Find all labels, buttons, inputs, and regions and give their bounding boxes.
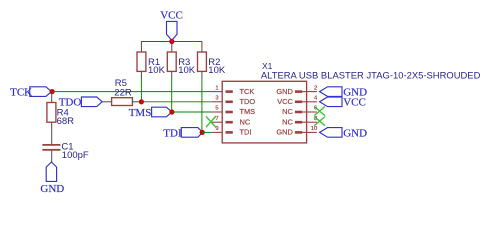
svg-text:GND: GND [40, 183, 64, 195]
pin 5 TMS [212, 106, 255, 117]
pin 8 NC [282, 116, 317, 127]
svg-text:2: 2 [314, 85, 317, 91]
wire TDO to R5 [102, 101, 112, 103]
svg-text:1: 1 [215, 85, 218, 91]
svg-text:TMS: TMS [240, 107, 256, 116]
pin 2 GND [276, 85, 317, 96]
supply symbol VCC [160, 9, 183, 40]
net label VCC pin4 [320, 97, 366, 109]
no-connect cross pin 8 [314, 117, 325, 126]
svg-text:TMS: TMS [129, 107, 152, 119]
svg-text:GND: GND [276, 87, 292, 96]
wire TCK to R4 [51, 92, 53, 103]
svg-text:GND: GND [343, 127, 367, 139]
no-connect cross pin 6 [314, 107, 325, 116]
wire R3 bottom stub [171, 71, 173, 78]
ground symbol GND [40, 162, 64, 195]
capacitor C1 top pin stub [51, 143, 53, 145]
resistor R3 10K [167, 52, 195, 76]
wire TDI net [202, 131, 212, 133]
svg-text:VCC: VCC [160, 9, 183, 21]
net label TDO [59, 97, 102, 109]
junction dot TDI/R2 [200, 130, 205, 135]
wire TMS net [172, 111, 212, 113]
wire C1 to GND [51, 152, 53, 163]
wire rail to R3 top [171, 42, 173, 53]
pin 6 NC [282, 106, 317, 117]
wire TDO net [141, 101, 212, 103]
wire rail to R2 top [201, 41, 203, 52]
pin 1 TCK [212, 85, 254, 96]
svg-text:22R: 22R [114, 87, 132, 98]
net label GND pin10 [320, 127, 367, 139]
resistor R2 10K [198, 52, 226, 76]
svg-text:3: 3 [215, 96, 218, 102]
resistor R5 22R [112, 78, 133, 106]
svg-text:TCK: TCK [240, 87, 255, 96]
pin 9 TDI [212, 126, 252, 137]
no-connect cross pin 7 [206, 116, 216, 127]
wire R1 bottom stub [140, 71, 142, 78]
svg-text:5: 5 [215, 106, 218, 112]
net label TCK [10, 87, 52, 99]
pin 3 TDO [212, 96, 255, 107]
capacitor C1 100pF [42, 141, 89, 161]
junction dot VCC rail [169, 39, 174, 44]
svg-text:NC: NC [240, 117, 251, 126]
svg-text:TDI: TDI [240, 128, 252, 137]
junction dot TDO/R1 [139, 99, 144, 104]
svg-text:9: 9 [215, 126, 218, 132]
wire R1 to TDO net [140, 78, 142, 102]
net label TDI [163, 127, 202, 139]
wire R2 bottom stub [201, 71, 203, 78]
svg-text:10: 10 [311, 126, 317, 132]
svg-text:GND: GND [276, 128, 292, 137]
wire R4 to C1 [51, 122, 53, 143]
junction dot TCK [50, 89, 55, 94]
svg-text:TCK: TCK [10, 87, 32, 99]
svg-text:TDI: TDI [163, 127, 182, 139]
svg-text:7: 7 [215, 116, 218, 122]
wire VCC rail [141, 41, 202, 43]
svg-text:VCC: VCC [343, 97, 366, 109]
svg-text:10K: 10K [178, 65, 196, 76]
pin 7 NC [212, 116, 251, 127]
resistor R4 68R [47, 103, 74, 127]
svg-text:X1: X1 [262, 61, 273, 71]
svg-text:ALTERA USB BLASTER JTAG-10-2X5: ALTERA USB BLASTER JTAG-10-2X5-SHROUDED [261, 71, 481, 82]
svg-text:TDO: TDO [240, 97, 256, 106]
wire R3 to TMS net [171, 78, 173, 113]
svg-text:10K: 10K [148, 65, 166, 76]
capacitor C1 bottom pin stub [51, 150, 53, 152]
svg-text:10K: 10K [208, 65, 226, 76]
net label GND pin2 [320, 87, 367, 99]
junction dot TMS/R3 [169, 109, 174, 114]
svg-text:NC: NC [282, 117, 293, 126]
wire R5 to TDO net [132, 101, 141, 103]
svg-text:68R: 68R [57, 116, 75, 127]
net label TMS [129, 107, 172, 119]
pin 10 GND [276, 126, 317, 137]
resistor R1 10K [137, 52, 166, 76]
pin 4 VCC [277, 96, 318, 107]
wire R2 to TDI net [201, 78, 203, 133]
svg-text:VCC: VCC [277, 97, 293, 106]
svg-text:100pF: 100pF [62, 150, 89, 161]
wire TCK net [52, 91, 212, 93]
svg-text:NC: NC [282, 107, 293, 116]
wire rail to R1 top [140, 41, 142, 52]
svg-text:TDO: TDO [59, 97, 82, 109]
connector X1 body [222, 61, 480, 143]
